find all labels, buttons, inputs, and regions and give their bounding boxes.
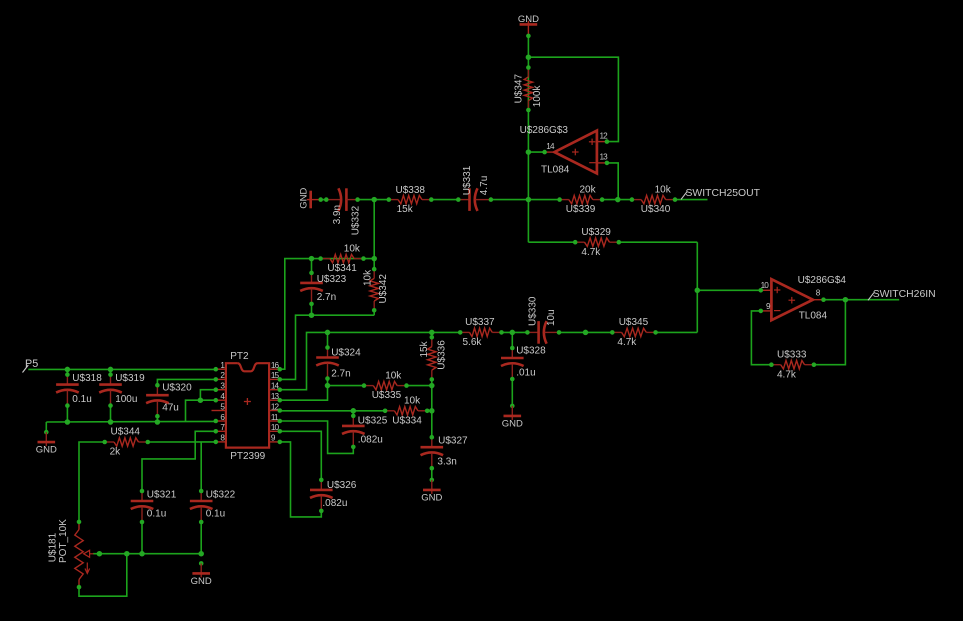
resistor U$337 5.6k — [458, 317, 504, 348]
wire U$328 top stub — [511, 332, 513, 348]
svg-text:0.1u: 0.1u — [72, 394, 91, 405]
resistor U$340 10k — [630, 184, 678, 215]
wire U$342 bottom stub — [373, 310, 375, 315]
wire main vertical GND/U$347/op-amp column — [527, 36, 529, 242]
svg-text:2k: 2k — [110, 447, 122, 458]
wire op-amp1 pin 14 to column — [528, 151, 544, 153]
wire U$333 right up to output — [814, 300, 846, 365]
ground rotated at U$332 — [299, 188, 323, 209]
op-amp U$286G$4 TL084 — [759, 275, 847, 321]
wire feedback top loop to op-amp1 pin 12 — [528, 57, 618, 141]
wire pot bottom loop — [79, 554, 127, 597]
PT2399 left pins 1-8 — [212, 361, 226, 444]
resistor U$338 15k — [387, 185, 434, 215]
resistor U$345 4.7k — [610, 317, 658, 348]
svg-text:10k: 10k — [404, 396, 421, 407]
svg-text:U$329: U$329 — [581, 227, 611, 238]
wire U$328 bottom to GND — [511, 378, 513, 406]
svg-text:15k: 15k — [397, 204, 414, 215]
wire op-amp2 pin9 loop to U$333 — [751, 311, 771, 365]
resistor U$342 10k — [362, 267, 389, 313]
wire U$323 top branch — [311, 259, 313, 273]
svg-text:U$341: U$341 — [327, 263, 357, 274]
wire pin3 jog down to pin4 line — [200, 390, 215, 401]
capacitor U$327 3.3n — [421, 435, 469, 471]
wire U$327 bottom to GND — [431, 468, 433, 480]
svg-text:U$337: U$337 — [465, 317, 495, 328]
wire U$325 top stub — [352, 411, 354, 416]
svg-text:U$336: U$336 — [437, 340, 448, 370]
wire op-amp2 output to SWITCH26IN — [824, 299, 900, 301]
IC PT2 PT2399 — [226, 351, 269, 462]
svg-text:100k: 100k — [532, 85, 543, 108]
capacitor U$331 4.7u — [456, 165, 493, 211]
svg-text:U$344: U$344 — [111, 427, 141, 438]
wire U$336 bottom to U$327 top — [431, 379, 433, 437]
capacitor U$330 10u — [525, 296, 561, 344]
capacitor U$318 0.1u — [56, 372, 102, 408]
wire U$318 bottom — [66, 406, 68, 422]
svg-text:3.9n: 3.9n — [332, 205, 343, 224]
svg-text:10u: 10u — [546, 309, 557, 326]
svg-text:10k: 10k — [385, 370, 402, 381]
ground left below supply caps — [36, 430, 57, 456]
svg-text:U$286G$3: U$286G$3 — [520, 125, 569, 136]
wire branch down to U$322 — [200, 442, 202, 491]
wire P5 rail to PT2399 pin 1 — [28, 368, 216, 370]
svg-text:U$327: U$327 — [438, 435, 468, 446]
wire pin7 jog to U$321 top — [142, 431, 216, 491]
svg-text:U$181: U$181 — [47, 532, 58, 562]
ground below U$322 — [191, 561, 212, 587]
op-amp U$286G$3 TL084 (mirrored) — [520, 125, 610, 175]
svg-text:U$322: U$322 — [206, 490, 236, 501]
svg-text:U$342: U$342 — [378, 274, 389, 304]
wire U$344 left down to potentiometer — [79, 442, 105, 522]
capacitor U$320 47u — [146, 383, 192, 419]
wire pin8 row / U$344 right — [148, 441, 216, 443]
net label P5 — [23, 358, 39, 373]
svg-text:U$332: U$332 — [350, 205, 361, 235]
svg-text:P5: P5 — [25, 358, 38, 370]
svg-text:U$324: U$324 — [331, 348, 361, 359]
wire pin13 jog up to U$324 bottom junction — [280, 386, 328, 401]
capacitor U$326 .082u — [310, 478, 357, 514]
potentiometer U$181 POT_10K — [47, 519, 101, 590]
ground below U$328 — [502, 404, 523, 430]
svg-text:GND: GND — [36, 445, 57, 456]
wire U$340 to SWITCH25OUT — [675, 199, 708, 201]
svg-text:4.7k: 4.7k — [581, 247, 601, 258]
wire U$318 top stub — [66, 369, 68, 374]
wire U$319 top stub — [110, 369, 112, 374]
wire U$324 bottom — [327, 379, 329, 386]
wire mid net to U$345 right — [656, 331, 698, 333]
wire U$342 top stub — [373, 259, 375, 270]
svg-text:10k: 10k — [344, 243, 361, 254]
svg-text:3.3n: 3.3n — [437, 456, 456, 467]
svg-text:U$335: U$335 — [372, 390, 402, 401]
svg-text:47u: 47u — [162, 403, 179, 414]
capacitor U$328 .01u — [501, 346, 546, 382]
svg-text:U$345: U$345 — [619, 317, 649, 328]
wire U$336 top stub — [431, 332, 433, 337]
svg-text:4.7k: 4.7k — [617, 337, 637, 348]
svg-text:U$319: U$319 — [115, 373, 145, 384]
svg-text:SWITCH25OUT: SWITCH25OUT — [686, 188, 761, 199]
svg-text:4.7u: 4.7u — [479, 176, 490, 195]
wire U$320 bottom — [156, 416, 158, 422]
svg-text:U$339: U$339 — [566, 204, 596, 215]
wire U$329 row from column — [528, 241, 575, 243]
resistor U$335 10k — [362, 370, 409, 401]
svg-text:TL084: TL084 — [541, 164, 570, 175]
svg-text:GND: GND — [421, 492, 442, 503]
net label SWITCH25OUT — [681, 188, 761, 200]
capacitor U$324 2.7n — [316, 345, 361, 381]
wire U$332 to U$338 — [358, 199, 389, 201]
svg-text:TL084: TL084 — [799, 310, 828, 321]
wire op-amp1 pin 13 down to top net — [607, 163, 618, 200]
wire pin14 up to mid net — [280, 332, 460, 389]
svg-text:10k: 10k — [655, 184, 672, 195]
wire U$339 to U$340 — [602, 199, 632, 201]
svg-text:SWITCH26IN: SWITCH26IN — [873, 289, 936, 300]
wire rail U$323/U$342 bottoms to pin15 — [280, 315, 374, 379]
PT2399 right pins 16-9 — [269, 361, 282, 444]
svg-text:GND: GND — [299, 188, 310, 209]
wire U$338 to U$331 — [431, 199, 458, 201]
svg-text:2.7n: 2.7n — [317, 292, 336, 303]
wire down right column to mid net — [696, 242, 698, 332]
wire U$326 bottom loop to pin9 — [280, 442, 322, 517]
svg-text:U$321: U$321 — [147, 490, 177, 501]
capacitor U$323 2.7n — [300, 271, 346, 307]
wire mid net U$337 to U$330 — [502, 331, 528, 333]
wire pin4 line to ground rail — [186, 400, 216, 422]
svg-text:U$286G$4: U$286G$4 — [798, 275, 847, 286]
svg-text:U$318: U$318 — [72, 373, 102, 384]
svg-text:U$326: U$326 — [327, 480, 357, 491]
resistor U$339 20k — [557, 184, 604, 215]
capacitor U$325 .082u — [342, 414, 388, 450]
svg-text:U$320: U$320 — [162, 383, 192, 394]
svg-text:0.1u: 0.1u — [147, 508, 166, 519]
svg-text:4.7k: 4.7k — [777, 369, 797, 380]
resistor U$336 15k — [419, 335, 447, 382]
resistor U$334 10k — [383, 396, 430, 427]
wire U$335 row — [328, 385, 365, 387]
resistor U$329 4.7k — [573, 227, 621, 258]
wire pin10 to U$326 top — [280, 431, 322, 480]
svg-text:U$338: U$338 — [396, 185, 426, 196]
wire U$319 bottom — [110, 406, 112, 422]
svg-text:POT_10K: POT_10K — [58, 519, 69, 563]
wire U$325 bottom loop to pin11 — [280, 421, 354, 453]
svg-text:10k: 10k — [362, 269, 373, 286]
svg-text:U$328: U$328 — [516, 346, 546, 357]
svg-text:U$347: U$347 — [513, 73, 524, 103]
capacitor U$322 0.1u — [190, 489, 236, 525]
wire wiper rail — [93, 553, 201, 555]
svg-text:PT2: PT2 — [230, 351, 249, 362]
svg-text:.082u: .082u — [322, 498, 347, 509]
svg-text:5.6k: 5.6k — [463, 337, 483, 348]
svg-text:.01u: .01u — [516, 367, 535, 378]
wire pin12 row to U$334 — [280, 410, 385, 412]
net label SWITCH26IN — [868, 289, 936, 301]
capacitor U$319 100u — [99, 372, 145, 408]
wire drop to GND symbol left — [45, 422, 47, 432]
resistor U$341 10k — [318, 243, 366, 274]
ground top (inverted) at U$347 column — [518, 14, 539, 38]
svg-text:U$325: U$325 — [358, 416, 388, 427]
svg-text:U$340: U$340 — [641, 204, 671, 215]
svg-text:20k: 20k — [580, 184, 597, 195]
capacitor U$321 0.1u — [131, 489, 177, 525]
wire mid net U$330 to U$345 — [559, 331, 612, 333]
svg-text:0.1u: 0.1u — [206, 508, 225, 519]
svg-text:15k: 15k — [419, 340, 430, 357]
wire U$321 bottom — [141, 523, 143, 554]
svg-text:U$330: U$330 — [528, 296, 539, 326]
svg-text:PT2399: PT2399 — [230, 451, 265, 462]
svg-text:.082u: .082u — [358, 434, 383, 445]
svg-text:GND: GND — [502, 418, 523, 429]
resistor U$344 2k — [102, 427, 150, 458]
svg-text:100u: 100u — [115, 394, 137, 405]
ground below U$327 — [421, 478, 442, 504]
capacitor U$332 3.9n — [324, 188, 361, 235]
resistor U$347 100k — [513, 65, 543, 112]
svg-text:U$323: U$323 — [317, 274, 347, 285]
svg-text:GND: GND — [191, 576, 212, 587]
wire pin16 net up-left to U$341 row — [280, 259, 374, 370]
wire U$324 top stub — [327, 332, 329, 347]
resistor U$333 4.7k — [769, 349, 816, 380]
wire U$331 to U$339 — [491, 199, 560, 201]
wire top net GND to U$332 — [321, 199, 327, 201]
wire pin2 to U$320 — [157, 379, 215, 385]
wire U$323 bottom — [311, 304, 313, 315]
wire to op-amp2 pin 10 — [697, 289, 761, 291]
svg-text:2.7n: 2.7n — [331, 368, 350, 379]
wire vertical from top net down to U$341/U$342 — [373, 200, 375, 259]
svg-text:U$333: U$333 — [777, 349, 807, 360]
wire U$322 bottom — [200, 523, 202, 554]
wire ground rail bottom-left — [46, 420, 216, 423]
svg-text:U$334: U$334 — [392, 415, 422, 426]
svg-text:U$331: U$331 — [462, 165, 473, 195]
